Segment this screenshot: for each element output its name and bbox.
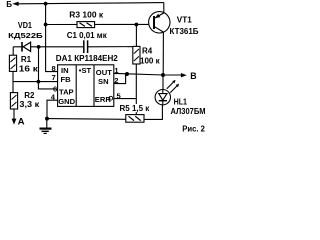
svg-text:VT1: VT1 bbox=[177, 15, 192, 25]
label R5 value (covers wire) bbox=[119, 104, 150, 113]
resistor R3 body bbox=[77, 22, 95, 28]
junction R3 / base / R4 bbox=[135, 23, 139, 27]
capacitor C1 plates bbox=[84, 40, 88, 53]
terminal B wire bbox=[163, 74, 182, 76]
wire ERR pin 5 bbox=[114, 98, 137, 100]
svg-text:VD1: VD1 bbox=[18, 21, 32, 30]
svg-text:В: В bbox=[190, 71, 196, 81]
LED HL1 inner leads bbox=[162, 90, 164, 94]
wire FB drop bbox=[38, 47, 40, 82]
svg-text:КД522Б: КД522Б bbox=[8, 31, 43, 40]
terminal Б arrowhead bbox=[12, 2, 18, 6]
svg-text:•ST: •ST bbox=[79, 66, 92, 75]
wire ground bus to R5 bbox=[47, 118, 126, 121]
LED HL1 circle bbox=[155, 90, 170, 105]
diode VD1 cathode bar bbox=[21, 42, 23, 52]
transistor VT1 collector wire bbox=[155, 27, 164, 75]
svg-text:DA1 КР1184ЕН2: DA1 КР1184ЕН2 bbox=[56, 54, 119, 63]
wire FB row bbox=[13, 81, 58, 83]
svg-text:TAP: TAP bbox=[59, 87, 74, 96]
svg-text:100 к: 100 к bbox=[140, 57, 161, 66]
resistor R4 column wire top bbox=[135, 25, 137, 47]
LED HL1 triangle bbox=[159, 94, 167, 101]
junction OUT / SN bbox=[125, 72, 129, 76]
svg-text:16 к: 16 к bbox=[19, 65, 39, 74]
svg-text:R1: R1 bbox=[21, 55, 32, 64]
IC DA1 box bbox=[58, 65, 114, 107]
wire GND pin 4 to ground bus bbox=[47, 100, 58, 118]
transistor VT1 emitter arrow (PNP) bbox=[155, 14, 160, 18]
junction top rail / left bus bbox=[44, 2, 48, 6]
svg-text:ERR: ERR bbox=[95, 95, 112, 104]
IC pin ERR inversion circle bbox=[109, 96, 113, 100]
wire TAP pin 6 to FB node bbox=[38, 82, 57, 89]
svg-text:Б: Б bbox=[6, 0, 12, 9]
svg-text:SN: SN bbox=[98, 77, 109, 86]
resistor R4 body bbox=[133, 46, 140, 64]
svg-text:OUT: OUT bbox=[96, 68, 112, 77]
svg-text:А: А bbox=[18, 117, 25, 128]
diode VD1 triangle bbox=[23, 42, 30, 51]
svg-text:R5 1,5 к: R5 1,5 к bbox=[120, 104, 151, 113]
wire SN pin 2 up to OUT bbox=[114, 74, 126, 84]
terminal A arrowhead bbox=[12, 119, 17, 125]
svg-text:8: 8 bbox=[52, 64, 56, 73]
svg-text:GND: GND bbox=[58, 97, 75, 106]
wire diode / C1 row bbox=[13, 46, 83, 48]
svg-text:3,3 к: 3,3 к bbox=[19, 100, 40, 109]
transistor Q VT1 circle bbox=[149, 12, 170, 33]
junction diode / C1 / FB drop bbox=[37, 45, 41, 49]
terminal A wire bbox=[13, 109, 15, 120]
svg-text:КТ361Б: КТ361Б bbox=[170, 27, 199, 36]
ground symbol bbox=[40, 119, 52, 134]
junction collector / OUT / B / LED bbox=[161, 73, 165, 77]
wire OUT pin 1 to collector node bbox=[114, 73, 163, 75]
svg-text:Рис. 2: Рис. 2 bbox=[182, 124, 205, 134]
LED HL1 emission arrow 2 bbox=[170, 84, 179, 93]
svg-text:FB: FB bbox=[61, 75, 72, 84]
resistor R1 body bbox=[9, 55, 16, 71]
svg-text:HL1: HL1 bbox=[174, 98, 188, 107]
wire left bus down to pin 8 bbox=[46, 4, 58, 72]
wire R3 row bbox=[46, 23, 149, 25]
wire top rail from Б to VT1 emitter bbox=[18, 3, 163, 4]
junction ground bus bbox=[45, 117, 49, 121]
LED HL1 cathode bar bbox=[159, 100, 167, 102]
svg-text:С1 0,01 мк: С1 0,01 мк bbox=[67, 31, 108, 40]
svg-text:АЛ307БМ: АЛ307БМ bbox=[171, 107, 206, 116]
junction FB row bbox=[37, 80, 41, 84]
resistor R5 body bbox=[126, 115, 144, 123]
svg-text:R3 100 к: R3 100 к bbox=[69, 10, 104, 19]
wire R5 to LED corner bbox=[144, 105, 162, 120]
resistor R2 body bbox=[10, 93, 17, 109]
LED HL1 top wire bbox=[162, 75, 164, 90]
svg-text:R4: R4 bbox=[142, 47, 153, 56]
svg-text:7: 7 bbox=[52, 73, 56, 82]
wire R4 bottom down to R5 bbox=[135, 64, 137, 115]
LED HL1 emission arrow 1 bbox=[167, 80, 176, 89]
terminal B arrowhead bbox=[181, 73, 187, 77]
transistor VT1 emitter wire bbox=[155, 3, 164, 19]
transistor VT1 base bar bbox=[153, 16, 155, 29]
wire corner down to R1 bbox=[12, 47, 14, 55]
wire R1 bottom to R2 top bbox=[12, 71, 14, 92]
junction left bus / R3 bbox=[44, 23, 48, 27]
svg-text:R2: R2 bbox=[24, 91, 35, 100]
